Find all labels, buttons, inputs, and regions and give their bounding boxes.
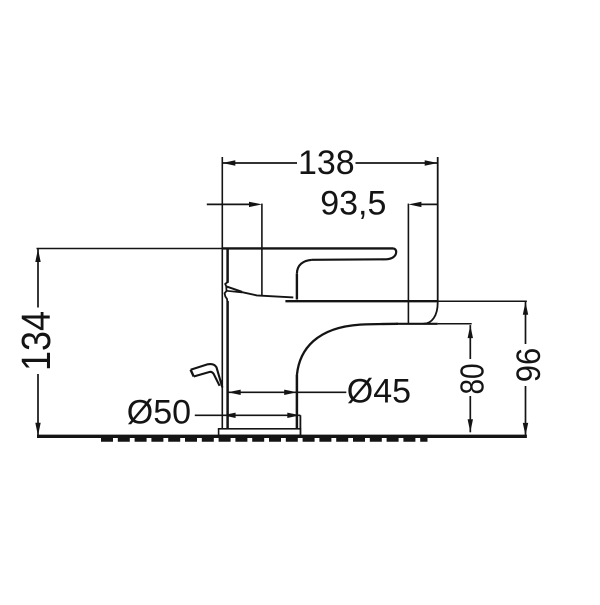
dimension 80 line — [469, 325, 471, 432]
handle stem right edge — [296, 274, 298, 300]
deck hatching dashes — [101, 438, 428, 442]
138 left extension line / flange left edge — [221, 157, 223, 429]
dimension 93,5 left tail — [207, 203, 250, 205]
dimension Ø45 right arrowhead — [284, 390, 297, 395]
aerator hook outer edge — [191, 364, 223, 388]
handle underside corner into stem — [297, 260, 312, 274]
body right edge — [296, 375, 299, 429]
dimension 93,5 right tail — [421, 203, 438, 205]
dimension 96 top arrowhead — [523, 302, 528, 315]
dimension 138 right arrowhead — [425, 160, 438, 165]
deck ground line (solid) — [37, 435, 527, 438]
handle top outline + 134 top extension line — [37, 247, 394, 249]
dimension 134 top arrowhead — [35, 249, 40, 262]
dimension Ø45 left arrowhead — [228, 390, 241, 395]
dimension 138 left arrowhead — [222, 160, 235, 165]
dimension 80 bottom arrowhead — [468, 419, 473, 432]
dimension Ø45 shaft and leader — [228, 391, 347, 393]
spout tip right edge / 138 right extension line — [424, 157, 438, 324]
dimension 96 bottom arrowhead — [523, 423, 528, 436]
dimension 134 line — [37, 249, 39, 436]
handle left edge — [226, 248, 229, 282]
svg-text:93,5: 93,5 — [320, 185, 386, 223]
svg-text:80: 80 — [453, 363, 491, 394]
aerator hook end cap — [191, 370, 194, 377]
aerator hook inner edge — [194, 372, 220, 386]
dimension Ø50 shaft and leader — [195, 414, 300, 416]
handle lower-left notch outline — [225, 282, 228, 301]
svg-text:Ø50: Ø50 — [127, 393, 191, 431]
svg-text:96: 96 — [508, 348, 547, 382]
handle lever pointer wedge (filled) — [226, 286, 242, 291]
dimension 134 bottom arrowhead — [35, 423, 40, 436]
dimension Ø50 left arrowhead — [223, 413, 236, 418]
svg-text:134: 134 — [14, 311, 60, 371]
body left edge — [226, 301, 229, 429]
svg-text:138: 138 — [298, 144, 355, 182]
svg-text:Ø45: Ø45 — [347, 373, 411, 411]
handle lever pointer wedge lower edge — [227, 291, 242, 293]
spout bottom line + 80 top extension — [396, 323, 472, 325]
dimension 93,5 right extension line — [407, 204, 409, 324]
dimension 93,5 left arrowhead — [249, 202, 262, 207]
dimension Ø50 right arrowhead — [287, 413, 300, 418]
spout underside big curve from body — [297, 324, 398, 375]
dimension 80 top arrowhead — [468, 325, 473, 338]
dimension 93,5 right arrowhead — [408, 202, 421, 207]
handle right rounded end and underside — [312, 248, 396, 259]
base plate — [219, 429, 301, 436]
spout top line + 96 top extension — [285, 300, 527, 302]
dimension 138 line — [222, 162, 437, 164]
dimension 93,5 left extension line — [261, 204, 263, 296]
flange right edge — [299, 415, 301, 435]
dimension 96 line — [525, 302, 527, 436]
handle bottom slanted edge — [241, 292, 293, 298]
